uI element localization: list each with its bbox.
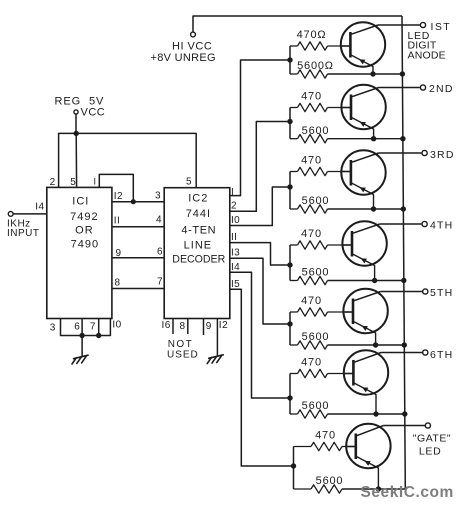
node terminal 6TH bbox=[423, 349, 454, 361]
svg-text:6TH: 6TH bbox=[430, 349, 453, 361]
IC1 pin 12 label bbox=[114, 191, 123, 202]
wire IC1 pin5 drop bbox=[75, 133, 77, 187]
wire IC1 pin1 loop bbox=[99, 174, 133, 201]
node pin1-pin12 junction bbox=[131, 199, 136, 204]
svg-text:LINE: LINE bbox=[184, 240, 212, 252]
IC2 pin I5 label bbox=[231, 279, 240, 290]
node stage 2 emitter junction bbox=[371, 136, 376, 141]
wire 5V supply rail bbox=[59, 133, 197, 187]
resistor 470 stage 6 bbox=[290, 356, 353, 377]
resistor 5600 stage 5 bbox=[290, 331, 404, 349]
node pin7 junction bbox=[96, 333, 101, 338]
node terminal IST bbox=[420, 21, 451, 33]
label LED DIGIT ANODE bbox=[408, 30, 446, 62]
svg-text:VCC: VCC bbox=[81, 107, 106, 119]
svg-text:5: 5 bbox=[70, 177, 76, 188]
resistor 470 stage 3 bbox=[290, 154, 351, 175]
svg-text:3: 3 bbox=[50, 323, 56, 334]
IC2 pin I label bbox=[231, 187, 234, 198]
svg-text:5600: 5600 bbox=[302, 267, 330, 279]
node stage 3 emitter junction bbox=[371, 206, 376, 211]
svg-text:6: 6 bbox=[74, 322, 80, 333]
IC2 pin I4 label bbox=[231, 262, 240, 273]
svg-text:ANODE: ANODE bbox=[408, 50, 446, 62]
svg-text:5: 5 bbox=[186, 177, 192, 188]
IC2 pin 8 stub bbox=[180, 319, 188, 335]
svg-text:3RD: 3RD bbox=[430, 149, 455, 161]
wire IC2 pin to stage 4 bbox=[230, 243, 290, 265]
watermark SeekIC.com bbox=[361, 484, 454, 501]
transistor Q6 bbox=[344, 350, 388, 414]
svg-text:"GATE": "GATE" bbox=[413, 432, 451, 444]
resistor 470 stage 7 bbox=[294, 429, 356, 450]
IC2 pin 4 label bbox=[156, 215, 162, 226]
label GATE LED bbox=[419, 446, 442, 458]
wire collector Q7 to terminal bbox=[383, 425, 425, 427]
label NOT USED bbox=[167, 339, 199, 360]
node stage 4 emitter junction bbox=[372, 278, 377, 283]
svg-text:I0: I0 bbox=[231, 215, 240, 226]
svg-text:3: 3 bbox=[155, 191, 161, 202]
wire IC2 pin to stage 2 bbox=[230, 122, 290, 212]
node stage 1 base junction bbox=[287, 46, 292, 74]
IC1 pin 10 label bbox=[112, 320, 121, 331]
wire collector Q3 to terminal bbox=[379, 152, 423, 154]
svg-text:7: 7 bbox=[90, 322, 96, 333]
node stage 4 base junction bbox=[287, 245, 292, 281]
ground IC2 bbox=[207, 355, 223, 364]
IC1 pin 3 label bbox=[50, 323, 56, 334]
svg-text:7: 7 bbox=[157, 277, 163, 288]
svg-text:7492: 7492 bbox=[70, 211, 98, 223]
svg-text:I5: I5 bbox=[231, 279, 240, 290]
wire +8V vertical rail bbox=[402, 16, 405, 489]
svg-text:6: 6 bbox=[157, 247, 163, 258]
transistor Q2 bbox=[341, 85, 385, 139]
transistor Q5 bbox=[343, 289, 387, 345]
wire IC1 pin9 to IC2 pin6 bbox=[112, 257, 164, 259]
wire collector Q6 to terminal bbox=[381, 352, 423, 354]
svg-text:9: 9 bbox=[116, 248, 122, 259]
svg-text:4: 4 bbox=[156, 215, 162, 226]
svg-text:I: I bbox=[93, 176, 96, 186]
IC1 pin 1 label bbox=[93, 176, 96, 186]
resistor 5600 stage 7 bbox=[294, 475, 406, 493]
svg-text:I6: I6 bbox=[162, 320, 171, 331]
IC1 pin 8 label bbox=[115, 278, 121, 289]
node REG 5V VCC terminal bbox=[55, 96, 106, 119]
svg-text:2: 2 bbox=[50, 177, 56, 188]
svg-text:I2: I2 bbox=[219, 320, 228, 331]
svg-text:II: II bbox=[231, 232, 237, 243]
transistor Q7 bbox=[346, 424, 390, 489]
svg-text:2ND: 2ND bbox=[429, 83, 454, 95]
svg-text:2: 2 bbox=[231, 201, 237, 212]
node terminal 2ND bbox=[420, 83, 453, 95]
IC1 label bbox=[70, 195, 99, 250]
IC2 pin 5 label bbox=[186, 177, 192, 188]
IC1 pin 2 label bbox=[50, 177, 56, 188]
transistor Q1 bbox=[341, 22, 385, 74]
svg-text:8: 8 bbox=[115, 278, 121, 289]
svg-text:5600: 5600 bbox=[316, 475, 344, 487]
transistor Q4 bbox=[342, 221, 386, 280]
wire IC1 pin11 to IC2 pin4 bbox=[112, 226, 164, 228]
IC2 box bbox=[164, 188, 230, 319]
svg-text:7490: 7490 bbox=[71, 239, 99, 251]
svg-text:470: 470 bbox=[301, 356, 322, 368]
svg-text:USED: USED bbox=[167, 350, 199, 361]
IC2 pin 16 stub bbox=[162, 319, 174, 335]
node VCC junction bbox=[74, 131, 79, 136]
node stage 1 emitter junction bbox=[370, 71, 375, 76]
node stage 6 rail junction bbox=[402, 411, 407, 416]
svg-text:470: 470 bbox=[315, 429, 336, 441]
node stage 5 base junction bbox=[287, 312, 292, 345]
svg-text:I4: I4 bbox=[35, 202, 44, 213]
IC1 pin 6 label bbox=[74, 322, 80, 333]
svg-text:5600Ω: 5600Ω bbox=[297, 60, 334, 72]
svg-text:I: I bbox=[231, 187, 234, 198]
node stage 7 emitter junction bbox=[376, 486, 381, 491]
wire IC1 ground bus bbox=[61, 319, 111, 336]
wire VCC to 5V rail bbox=[75, 114, 77, 133]
node stage 1 rail junction bbox=[400, 71, 405, 76]
node stage 6 emitter junction bbox=[373, 411, 378, 416]
wire collector Q5 to terminal bbox=[381, 291, 423, 293]
IC2 pin 12 stub bbox=[217, 319, 228, 357]
wire HI VCC to +8V rail top bbox=[193, 16, 402, 32]
node stage 3 base junction bbox=[287, 172, 292, 210]
svg-text:I3: I3 bbox=[231, 248, 240, 259]
wire IC1 pin8 to IC2 pin7 bbox=[112, 288, 164, 290]
svg-text:OR: OR bbox=[75, 224, 94, 236]
svg-text:470: 470 bbox=[301, 295, 322, 307]
svg-text:9: 9 bbox=[206, 321, 212, 332]
wire IC2 pin to stage 3 bbox=[230, 187, 290, 226]
IC1 pin 11 label bbox=[114, 216, 121, 227]
resistor 470 stage 5 bbox=[290, 295, 353, 316]
node pin6 junction bbox=[79, 333, 84, 338]
svg-text:I0: I0 bbox=[112, 320, 121, 331]
svg-text:HI VCC: HI VCC bbox=[172, 41, 212, 53]
IC2 label bbox=[172, 193, 225, 266]
node terminal 5TH bbox=[423, 287, 454, 299]
wire IC2 pin to stage 5 bbox=[230, 258, 290, 324]
svg-text:470Ω: 470Ω bbox=[297, 29, 327, 41]
svg-text:I2: I2 bbox=[114, 191, 123, 202]
node stage 2 base junction bbox=[287, 108, 292, 139]
wire IC2 pin to stage 6 bbox=[230, 272, 290, 398]
svg-text:470: 470 bbox=[301, 154, 322, 166]
node stage 5 emitter junction bbox=[373, 342, 378, 347]
svg-text:470: 470 bbox=[301, 90, 322, 102]
IC1 pin 9 label bbox=[116, 248, 122, 259]
svg-text:IST: IST bbox=[431, 21, 452, 33]
node terminal "GATE" bbox=[413, 423, 451, 444]
resistor 5600 stage 1 bbox=[290, 60, 402, 78]
svg-text:LED: LED bbox=[419, 446, 442, 458]
svg-text:4-TEN: 4-TEN bbox=[181, 224, 216, 236]
wire IC2 pin to stage 7 bbox=[230, 289, 294, 466]
svg-text:4TH: 4TH bbox=[430, 220, 453, 232]
wire collector Q4 to terminal bbox=[380, 223, 423, 225]
node stage 6 base junction bbox=[287, 374, 292, 415]
IC1 pin 14 label bbox=[35, 202, 44, 213]
resistor 5600 stage 3 bbox=[290, 195, 403, 213]
svg-text:SeekIC.com: SeekIC.com bbox=[361, 484, 454, 501]
ground IC1 bbox=[72, 355, 88, 364]
IC2 pin 2 label bbox=[231, 201, 237, 212]
svg-text:5600: 5600 bbox=[302, 331, 330, 343]
IC2 pin I3 label bbox=[231, 248, 240, 259]
svg-text:8: 8 bbox=[180, 321, 186, 332]
resistor 470 stage 4 bbox=[290, 228, 352, 249]
node HI VCC terminal bbox=[151, 32, 216, 64]
svg-text:+8V UNREG: +8V UNREG bbox=[151, 52, 216, 64]
transistor Q3 bbox=[341, 150, 385, 209]
wire to IC1 ground bbox=[81, 336, 83, 357]
wire collector Q2 to terminal bbox=[379, 87, 421, 89]
svg-text:5600: 5600 bbox=[302, 125, 330, 137]
resistor 470 stage 2 bbox=[290, 90, 351, 111]
resistor 5600 stage 2 bbox=[290, 125, 403, 143]
IC1 pin 7 label bbox=[90, 322, 96, 333]
svg-text:470: 470 bbox=[301, 228, 322, 240]
node terminal 3RD bbox=[422, 149, 455, 161]
IC1 pin 5 label bbox=[70, 177, 76, 188]
resistor 5600 stage 4 bbox=[290, 267, 404, 285]
node stage 3 rail junction bbox=[401, 206, 406, 211]
svg-text:REG: REG bbox=[55, 96, 82, 108]
resistor 5600 stage 6 bbox=[290, 400, 405, 418]
wire IC1 pin12 to IC2 pin3 bbox=[112, 201, 164, 203]
node 1KHz input terminal bbox=[7, 212, 47, 240]
svg-text:744I: 744I bbox=[186, 208, 211, 220]
svg-text:5TH: 5TH bbox=[430, 287, 453, 299]
svg-text:5600: 5600 bbox=[302, 195, 330, 207]
svg-text:5600: 5600 bbox=[302, 400, 330, 412]
wire collector Q1 to terminal bbox=[378, 24, 421, 26]
IC2 pin II label bbox=[231, 232, 237, 243]
IC1 box bbox=[47, 187, 112, 318]
svg-text:NOT: NOT bbox=[168, 339, 193, 350]
node stage 5 rail junction bbox=[402, 342, 407, 347]
node stage 7 base junction bbox=[291, 447, 296, 490]
wire IC2 pin to stage 1 bbox=[230, 60, 290, 196]
node stage 4 rail junction bbox=[401, 278, 406, 283]
node terminal 4TH bbox=[422, 220, 453, 232]
svg-text:INPUT: INPUT bbox=[7, 228, 40, 239]
IC2 pin 7 label bbox=[157, 277, 163, 288]
svg-text:ICI: ICI bbox=[72, 195, 89, 207]
IC2 pin I0 label bbox=[231, 215, 240, 226]
svg-text:DECODER: DECODER bbox=[172, 254, 225, 266]
svg-text:IC2: IC2 bbox=[188, 193, 208, 205]
svg-text:II: II bbox=[114, 216, 121, 227]
node stage 2 rail junction bbox=[400, 136, 405, 141]
IC2 pin 6 label bbox=[157, 247, 163, 258]
resistor 470 stage 1 bbox=[290, 29, 350, 50]
IC2 pin 9 stub bbox=[204, 319, 212, 336]
IC2 pin 3 label bbox=[155, 191, 161, 202]
